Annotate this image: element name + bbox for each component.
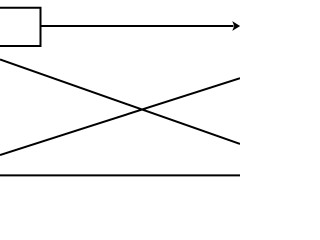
process box (clipped at left edge): [0, 8, 41, 46]
arrowhead: [233, 22, 239, 29]
wire: diagonal line bottom-left to top-right: [0, 78, 240, 155]
wire: diagonal line top-left to bottom-right: [0, 60, 240, 144]
wire: horizontal arrow shaft: [42, 25, 234, 27]
wire: bottom horizontal line: [0, 174, 240, 176]
